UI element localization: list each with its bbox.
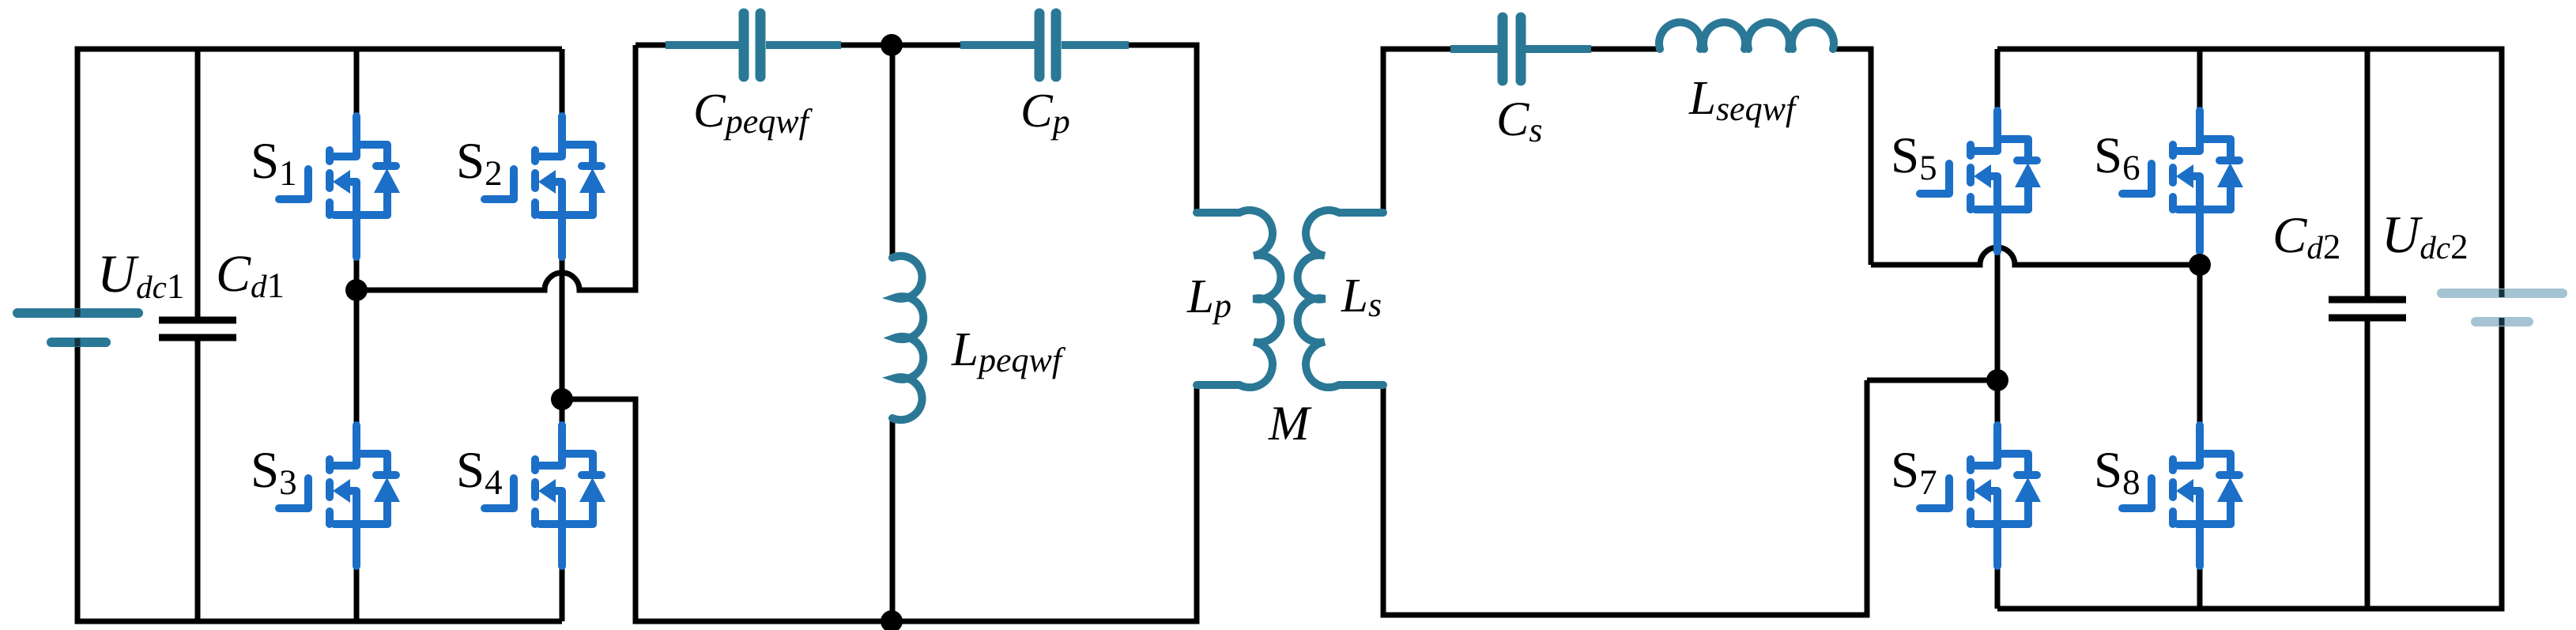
transistor S5	[1920, 111, 2041, 251]
wire: S7 source to bottom rail	[1995, 564, 2001, 609]
battery U_dc1 wire tips	[75, 309, 81, 346]
capacitor Cp	[960, 13, 1129, 77]
svg-text:Cd1: Cd1	[216, 245, 285, 305]
capacitor Cs	[1450, 17, 1591, 81]
wire: S2 drain from top rail	[560, 49, 565, 118]
wire: right rail lower + bridge2 bottom rail	[1997, 319, 2502, 609]
transistor S7	[1920, 425, 2041, 566]
svg-text:S2: S2	[456, 133, 503, 193]
svg-text:S1: S1	[251, 133, 297, 193]
wire: S4 source to bottom rail	[560, 564, 565, 621]
inductor Lpeqwf	[892, 256, 923, 420]
transistor S8	[2122, 425, 2243, 566]
wire: left rail top + bridge1 top rail	[77, 49, 562, 313]
svg-text:Lpeqwf: Lpeqwf	[951, 323, 1066, 379]
wire: node B to tank bottom rail	[562, 385, 1197, 621]
wire: Cd2 leg upper	[2365, 49, 2370, 303]
svg-text:Udc2: Udc2	[2382, 206, 2469, 266]
wire: node A to tank (with hop over S2/S4 leg)	[356, 45, 636, 290]
wire: primary tank top rail (middle segment)	[838, 43, 960, 48]
svg-text:M: M	[1268, 397, 1312, 451]
transistor S4	[485, 425, 605, 566]
svg-text:Lseqwf: Lseqwf	[1688, 72, 1800, 128]
svg-text:Udc1: Udc1	[97, 243, 184, 306]
wire: Cd2 leg lower	[2365, 315, 2370, 609]
wire: secondary top rail (mid segment)	[1591, 47, 1660, 52]
tank bottom junction dot	[881, 610, 903, 630]
inductor Lp (transformer primary)	[1197, 210, 1280, 387]
wire: Ls top to secondary top rail (left segment)	[1383, 49, 1455, 213]
wire: Ls bottom to secondary bottom rail	[1383, 380, 1867, 615]
svg-text:S8: S8	[2094, 442, 2140, 502]
wire: Cd1 leg lower	[195, 338, 201, 621]
wire: secondary AC lower to node D	[1867, 378, 1997, 383]
wire: bridge2 top rail + right rail upper	[1997, 49, 2502, 296]
wire: S5 source to node D to S7 drain	[1995, 250, 2001, 427]
svg-text:S4: S4	[456, 442, 503, 502]
wire: Lpeqwf branch upper	[890, 45, 896, 258]
svg-text:Cd2: Cd2	[2272, 207, 2340, 266]
svg-text:S6: S6	[2094, 127, 2140, 187]
transistor S3	[279, 425, 400, 566]
node D junction dot	[1986, 369, 2008, 391]
capacitor Cd2	[2329, 300, 2406, 318]
tank top junction dot	[881, 34, 903, 56]
capacitor Cd1	[159, 320, 236, 338]
svg-text:S3: S3	[251, 442, 297, 502]
svg-text:S7: S7	[1891, 442, 1937, 502]
wire: secondary AC upper (with hop over S5/S7 leg)	[1871, 247, 2200, 265]
node A junction dot	[345, 279, 368, 301]
svg-text:Cpeqwf: Cpeqwf	[693, 85, 813, 141]
wire: S6 source to node C to S8 drain	[2197, 250, 2203, 427]
wire: S3 source to bottom rail	[354, 564, 360, 621]
wire: primary tank top rail (right segment) + down to Lp	[1129, 45, 1197, 213]
inductor Ls (transformer secondary)	[1298, 210, 1383, 387]
node B junction dot	[551, 388, 573, 410]
battery U_dc1	[17, 313, 138, 342]
transistor S6	[2122, 111, 2243, 251]
battery U_dc2 wire tips	[2499, 289, 2505, 326]
inductor Lseqwf	[1659, 22, 1834, 49]
svg-text:S5: S5	[1891, 127, 1937, 187]
svg-text:Lp: Lp	[1186, 270, 1231, 325]
wire: left rail bottom + bridge1 bottom rail	[77, 342, 562, 621]
wire: S8 source to bottom rail	[2197, 564, 2203, 609]
wire: Lpeqwf branch lower	[890, 418, 896, 621]
transistor S1	[279, 116, 400, 257]
transistor S2	[485, 116, 605, 257]
wire: S1 source to node A to S3 drain	[354, 255, 360, 427]
battery U_dc2	[2442, 293, 2563, 322]
wire: S1 drain from top rail	[354, 49, 360, 118]
wire: Cd1 leg upper	[195, 49, 201, 320]
wire: secondary top rail (right segment) + down	[1834, 49, 1871, 265]
wire: S5 drain from top rail	[1995, 49, 2001, 112]
wire: S6 drain from top rail	[2197, 49, 2203, 112]
wire: primary tank top rail (left segment)	[636, 43, 669, 48]
node C junction dot	[2189, 254, 2211, 276]
svg-text:Cs: Cs	[1496, 92, 1542, 149]
wire: S2 source to node B to S4 drain	[560, 255, 565, 427]
svg-text:Cp: Cp	[1020, 85, 1070, 141]
svg-text:Ls: Ls	[1341, 270, 1382, 324]
capacitor Cpeqwf	[666, 13, 841, 77]
